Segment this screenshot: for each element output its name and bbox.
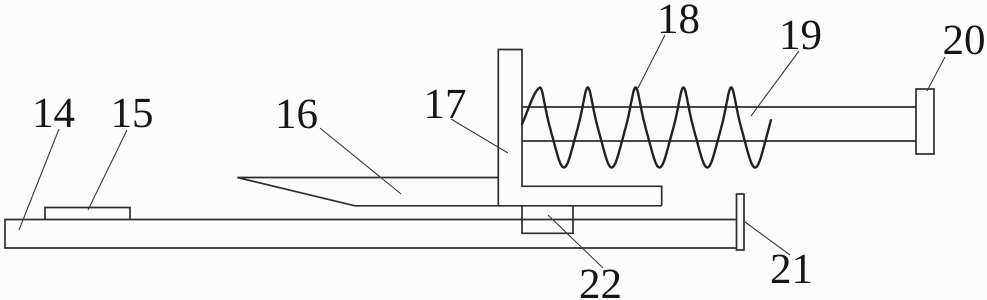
leader line 16: [320, 128, 401, 194]
leader line 21: [745, 222, 790, 255]
block 15: [45, 208, 130, 220]
label 16: [279, 100, 294, 128]
label 18: [661, 5, 676, 33]
leader line 22: [548, 215, 603, 268]
label 15: [114, 99, 129, 127]
label 19: [783, 21, 798, 49]
leader line 18: [638, 35, 665, 88]
rod 19 bottom edge: [522, 140, 916, 142]
label 20: [944, 26, 961, 54]
label 22: [581, 270, 598, 298]
leader line 15: [88, 130, 127, 210]
end cap 20: [916, 89, 934, 154]
spring 18: [522, 88, 771, 168]
leader line 17: [451, 119, 508, 153]
leader line 19: [751, 51, 799, 116]
rod 19 top edge: [522, 106, 916, 108]
L-bracket 17: [498, 50, 661, 206]
label 21: [772, 255, 789, 283]
label 14: [36, 99, 51, 127]
blade 16: [237, 178, 498, 206]
block 22: [522, 206, 573, 234]
leader line 20: [927, 57, 945, 91]
label 17: [427, 90, 442, 118]
base plate 14: [5, 220, 737, 249]
tab 21: [737, 194, 745, 250]
wire blade bottom / bracket bottom: [355, 205, 662, 207]
leader line 14: [19, 129, 59, 230]
